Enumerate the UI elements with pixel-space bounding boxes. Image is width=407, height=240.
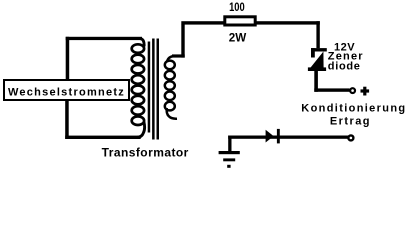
- transformer T1 secondary winding: [165, 61, 175, 111]
- + output terminal: [350, 88, 355, 93]
- zener diode D1: [308, 48, 327, 71]
- wire box bottom to transformer primary (vertical): [65, 100, 69, 139]
- transformer core line 1: [152, 39, 155, 140]
- wire bottom rail corner down to ground: [228, 136, 231, 154]
- wire box top to transformer primary (horizontal): [66, 37, 142, 40]
- svg-text:Konditionierung: Konditionierung: [301, 103, 406, 115]
- diode D2: [266, 129, 280, 144]
- output terminal (return): [348, 135, 353, 140]
- transformer T1 primary winding: [132, 44, 144, 125]
- svg-text:100: 100: [229, 1, 245, 14]
- transformer core line 2: [157, 39, 160, 140]
- svg-text:Wechselstromnetz: Wechselstromnetz: [8, 87, 125, 99]
- resistor R1 (100 2W): [225, 17, 255, 25]
- svg-text:diode: diode: [328, 61, 361, 73]
- svg-text:Transformator: Transformator: [102, 146, 189, 160]
- wire top rail corner down to zener: [316, 21, 319, 48]
- secondary top stub wire: [172, 54, 185, 57]
- svg-text:2W: 2W: [229, 30, 247, 44]
- secondary bottom tail: [167, 108, 177, 119]
- plus sign: [361, 87, 370, 96]
- top rail wire: [181, 21, 319, 24]
- wire below zener: [314, 71, 318, 92]
- secondary top hook: [167, 56, 174, 62]
- bottom rail wire: [228, 136, 348, 139]
- svg-text:Ertrag: Ertrag: [330, 115, 371, 127]
- wire box top to transformer primary (vertical): [66, 37, 70, 79]
- wire secondary up to top rail: [181, 24, 184, 57]
- wire hook from primary bottom: [138, 122, 145, 137]
- transformer primary return line: [148, 42, 151, 133]
- wire hook into primary top: [139, 38, 144, 46]
- wire zener to + terminal: [314, 88, 349, 91]
- wire box bottom to transformer primary (horizontal): [65, 136, 141, 139]
- AC source box Wechselstromnetz: [4, 80, 129, 100]
- ground: [219, 151, 240, 168]
